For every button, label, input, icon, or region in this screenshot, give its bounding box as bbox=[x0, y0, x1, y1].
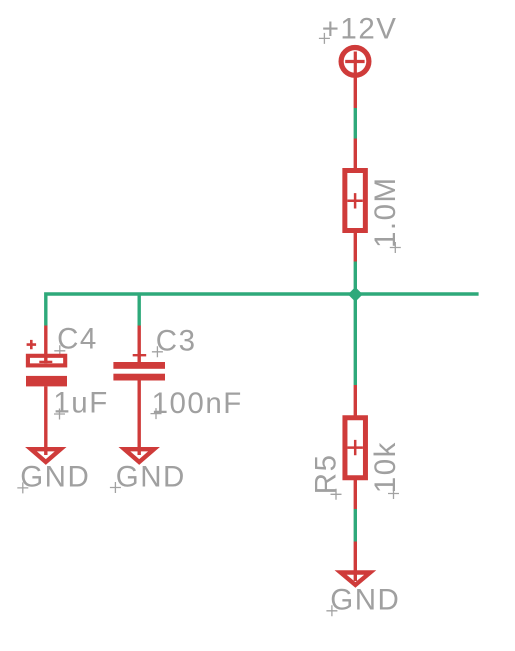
svg-text:C4: C4 bbox=[57, 323, 98, 356]
svg-text:GND: GND bbox=[116, 460, 186, 493]
svg-text:100nF: 100nF bbox=[152, 387, 243, 420]
svg-text:10k: 10k bbox=[369, 441, 402, 493]
svg-text:GND: GND bbox=[330, 584, 400, 617]
svg-text:GND: GND bbox=[20, 461, 90, 494]
svg-text:R5: R5 bbox=[309, 453, 342, 494]
svg-text:+12V: +12V bbox=[322, 12, 398, 45]
svg-text:1.0M: 1.0M bbox=[369, 176, 402, 248]
svg-text:1uF: 1uF bbox=[53, 387, 108, 420]
svg-text:C3: C3 bbox=[156, 325, 197, 358]
